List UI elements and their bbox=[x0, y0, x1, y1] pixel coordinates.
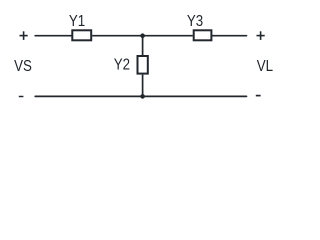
wire bottom rail bbox=[35, 95, 246, 97]
resistor Y3 bbox=[194, 30, 212, 40]
terminal minus (VS side) bbox=[19, 96, 24, 98]
terminal plus (VL side) bbox=[257, 31, 265, 40]
terminal minus (VL side) bbox=[256, 95, 261, 97]
wire top-middle segment bbox=[92, 35, 193, 37]
resistor Y2 bbox=[138, 56, 148, 74]
terminal plus (VS side) bbox=[20, 31, 28, 40]
resistor Y1 bbox=[72, 30, 91, 40]
wire shunt lower bbox=[142, 75, 144, 97]
svg-text:VS: VS bbox=[14, 58, 32, 75]
wire top-right segment bbox=[212, 35, 246, 37]
node junction bottom bbox=[140, 94, 145, 99]
svg-text:Y3: Y3 bbox=[187, 13, 203, 30]
svg-text:Y2: Y2 bbox=[114, 56, 130, 73]
wire top-left segment bbox=[35, 35, 72, 37]
svg-text:VL: VL bbox=[257, 58, 273, 75]
node junction top bbox=[140, 33, 145, 38]
svg-text:Y1: Y1 bbox=[69, 13, 85, 30]
wire shunt upper bbox=[142, 36, 144, 56]
